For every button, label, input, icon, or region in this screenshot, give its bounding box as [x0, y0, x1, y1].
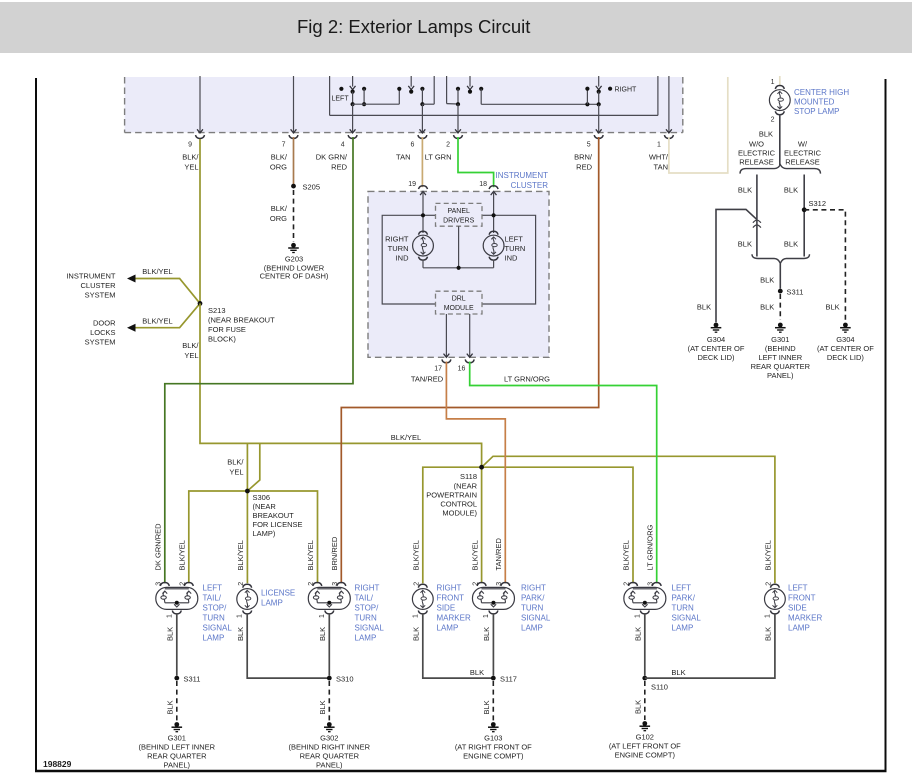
svg-text:LAMP: LAMP [355, 634, 377, 643]
switch wiper 4 (pin 5 feed) [596, 76, 602, 106]
wire BLK w/ electric release branch [803, 175, 805, 257]
wire DRL module to pin 16 exit [465, 314, 474, 363]
title bar [0, 2, 912, 53]
ground G304 left [711, 323, 722, 333]
svg-text:6: 6 [410, 142, 414, 149]
svg-text:BREAKOUT: BREAKOUT [253, 511, 295, 520]
svg-text:2: 2 [472, 582, 479, 586]
svg-text:LAMP: LAMP [437, 624, 459, 633]
ground G203 [288, 243, 299, 253]
multifunction switch SW1 (solid box, top cut off) [330, 76, 658, 115]
svg-text:2: 2 [624, 582, 631, 586]
crossover arcs on w/o branch [753, 220, 761, 227]
splice S110 [642, 676, 647, 681]
svg-text:LAMP: LAMP [203, 634, 225, 643]
wire S213 down and right along bus to S118 drop [200, 303, 482, 467]
svg-text:1: 1 [634, 614, 641, 618]
svg-text:SYSTEM: SYSTEM [85, 338, 116, 347]
svg-text:FOR LICENSE: FOR LICENSE [253, 520, 303, 529]
wire bus 481 to 598 [481, 103, 599, 105]
svg-text:ELECTRIC: ELECTRIC [784, 149, 822, 158]
svg-text:MARKER: MARKER [788, 614, 822, 623]
junction dot node 18 [492, 213, 496, 217]
svg-text:4: 4 [341, 142, 345, 149]
splice S213 [198, 301, 203, 306]
svg-text:BLK: BLK [826, 302, 840, 311]
contact dot + drop at 481 [479, 87, 483, 105]
net LT GRN: pin 2 to cluster pin 18 [458, 137, 494, 187]
svg-text:BLK: BLK [482, 700, 491, 714]
svg-text:BLK: BLK [166, 627, 175, 641]
wire pin 2 exit [454, 104, 463, 138]
ground G301 [172, 722, 183, 732]
svg-text:BLK/YEL: BLK/YEL [470, 540, 479, 570]
label W/O ELECTRIC RELEASE [738, 140, 776, 167]
lamp left turn indicator [483, 231, 504, 260]
ground G102 [640, 721, 651, 731]
splice S205 [291, 184, 296, 189]
svg-text:G304: G304 [707, 335, 725, 344]
svg-text:S118: S118 [460, 472, 477, 481]
svg-text:BRN/RED: BRN/RED [330, 536, 339, 570]
svg-text:LAMP: LAMP [788, 624, 810, 633]
svg-text:SYSTEM: SYSTEM [85, 291, 116, 300]
wire pin 1 exit [664, 76, 673, 138]
svg-text:(AT CENTER OF: (AT CENTER OF [817, 344, 874, 353]
svg-text:3: 3 [156, 582, 163, 586]
svg-text:RED: RED [331, 163, 347, 172]
lamp right turn indicator [413, 231, 434, 260]
label G301 (BEHIND LEFT INNER REAR QUARTER PANEL) [751, 335, 811, 380]
label RIGHT TAIL/STOP/TURN SIGNAL LAMP [355, 584, 385, 643]
junction dot pin 4 [351, 102, 355, 106]
svg-text:ORG: ORG [270, 214, 287, 223]
svg-text:BLK/: BLK/ [271, 153, 288, 162]
svg-text:CENTER HIGH: CENTER HIGH [794, 88, 849, 97]
svg-text:BLK: BLK [784, 240, 798, 249]
svg-text:ENGINE COMPT): ENGINE COMPT) [463, 752, 524, 761]
wire BLK w/o electric release branch [756, 175, 758, 257]
wire pin 19 down to right turn ind lamp [422, 191, 424, 233]
connector pin 19 (cup + arrow) [419, 186, 428, 195]
svg-text:G203: G203 [285, 255, 303, 264]
net TAN/RED: cluster pin 17 to right park lamp pin 3 [446, 362, 505, 584]
svg-text:SIDE: SIDE [788, 604, 807, 613]
svg-text:G301: G301 [168, 734, 186, 743]
svg-text:BLK: BLK [318, 700, 327, 714]
svg-text:BLK/: BLK/ [182, 153, 199, 162]
svg-text:PANEL): PANEL) [767, 371, 794, 380]
svg-text:G301: G301 [771, 335, 789, 344]
options brace (splits W/O and W/ electric release) [740, 165, 821, 174]
svg-text:FRONT: FRONT [437, 594, 465, 603]
label CENTER HIGH MOUNTED STOP LAMP [794, 88, 849, 116]
contact dot LEFT position [339, 87, 343, 91]
lamp LEFT PARK/TURN SIGNAL LAMP [624, 583, 666, 614]
label S213 (NEAR BREAKOUT FOR FUSE BLOCK) [208, 306, 275, 344]
svg-text:REAR QUARTER: REAR QUARTER [751, 362, 811, 371]
svg-text:BLK: BLK [759, 130, 773, 139]
net BRN/RED: pin 5 to right tail lamp pin 1 (3) [341, 137, 598, 583]
svg-text:SIGNAL: SIGNAL [355, 624, 385, 633]
svg-text:CONTROL: CONTROL [440, 500, 477, 509]
switch wiper 2 [408, 76, 414, 94]
label BLK/ORG (ground leg) [270, 204, 288, 223]
wire BLK right tail to S310 [328, 613, 330, 676]
lamp CHMSL: center high mounted stop lamp [769, 86, 790, 115]
svg-text:LT GRN/ORG: LT GRN/ORG [504, 375, 550, 384]
svg-text:DRIVERS: DRIVERS [443, 217, 474, 224]
svg-text:REAR QUARTER: REAR QUARTER [300, 752, 360, 761]
svg-text:BLK: BLK [738, 240, 752, 249]
wire BLK left front marker to S110 [645, 613, 775, 678]
svg-text:S205: S205 [303, 183, 321, 192]
wire pin 7 exit [289, 76, 298, 138]
svg-text:TAN/RED: TAN/RED [411, 375, 444, 384]
svg-text:LEFT: LEFT [788, 584, 808, 593]
lamp RIGHT TAIL/STOP/TURN SIGNAL LAMP [308, 583, 350, 614]
svg-text:2: 2 [771, 117, 775, 124]
instrument cluster (dashed box) [368, 191, 549, 357]
label INSTRUMENT CLUSTER SYSTEM [66, 272, 116, 300]
svg-text:CLUSTER: CLUSTER [511, 181, 549, 190]
svg-text:PANEL): PANEL) [316, 761, 343, 770]
wire S306 right branch to right tail lamp pin 2 [247, 491, 317, 583]
wire bus to contact at 399 [353, 87, 402, 104]
svg-text:S117: S117 [500, 675, 517, 684]
svg-text:ELECTRIC: ELECTRIC [738, 149, 776, 158]
svg-text:1: 1 [764, 614, 771, 618]
lamp RIGHT PARK/TURN SIGNAL LAMP [472, 583, 514, 614]
svg-text:LT GRN/ORG: LT GRN/ORG [645, 524, 654, 570]
svg-text:PARK/: PARK/ [521, 594, 545, 603]
svg-text:LEFT INNER: LEFT INNER [758, 353, 802, 362]
svg-text:ENGINE COMPT): ENGINE COMPT) [615, 751, 676, 760]
wire drop from bus to S306 [246, 443, 248, 491]
svg-text:TURN: TURN [388, 244, 409, 253]
label S118 (NEAR POWERTRAIN CONTROL MODULE) [426, 472, 477, 518]
wire S306 jog to bus (diagonal riser) [247, 443, 259, 491]
svg-text:LAMP): LAMP) [253, 529, 276, 538]
svg-text:1: 1 [483, 614, 490, 618]
svg-text:SIGNAL: SIGNAL [521, 614, 551, 623]
svg-text:ORG: ORG [270, 163, 287, 172]
wire pin 6 exit [418, 104, 427, 138]
svg-text:DECK LID): DECK LID) [827, 353, 865, 362]
svg-text:RIGHT: RIGHT [615, 87, 638, 94]
label LEFT TURN IND [505, 235, 526, 263]
label G102 (AT LEFT FRONT OF ENGINE COMPT) [609, 733, 681, 760]
wire pin 5 exit [594, 104, 603, 138]
svg-text:LEFT: LEFT [672, 584, 692, 593]
wire S306 left branch to left tail lamp pin 2 [189, 491, 248, 583]
svg-text:(BEHIND LEFT INNER: (BEHIND LEFT INNER [139, 743, 216, 752]
net TAN: pin 6 to cluster pin 19 [421, 137, 423, 187]
svg-text:W/O: W/O [749, 140, 764, 149]
svg-text:RED: RED [576, 163, 592, 172]
svg-text:POWERTRAIN: POWERTRAIN [426, 491, 477, 500]
net BLK/YEL: pin 9 to S213 [199, 139, 201, 303]
frame right border [885, 79, 887, 772]
svg-text:PANEL: PANEL [447, 208, 470, 215]
svg-text:BLK/YEL: BLK/YEL [412, 540, 421, 570]
net LT GRN/ORG: cluster pin 16 to left park lamp pin 3 [470, 362, 657, 584]
svg-text:2: 2 [766, 582, 773, 586]
svg-text:198829: 198829 [43, 759, 72, 769]
contact dot + riser at 587 [585, 87, 589, 107]
svg-text:BLK: BLK [633, 700, 642, 714]
svg-text:BLK/: BLK/ [182, 341, 199, 350]
ground G301 (upper) [775, 323, 786, 333]
svg-text:SIGNAL: SIGNAL [672, 614, 702, 623]
svg-text:7: 7 [282, 142, 286, 149]
svg-text:DECK LID): DECK LID) [697, 353, 735, 362]
wire branch to G304 deck lid ground (left) [716, 209, 757, 322]
svg-text:BLK: BLK [764, 627, 773, 641]
svg-text:BLK: BLK [784, 186, 798, 195]
label G203 (BEHIND LOWER CENTER OF DASH) [260, 255, 329, 281]
frame bottom border [35, 770, 887, 773]
svg-text:1: 1 [412, 614, 419, 618]
svg-text:TAIL/: TAIL/ [203, 594, 222, 603]
label BLK/YEL above S306 [227, 458, 244, 477]
svg-text:(NEAR BREAKOUT: (NEAR BREAKOUT [208, 316, 275, 325]
svg-text:LAMP: LAMP [261, 599, 283, 608]
junction dot on bus [457, 266, 461, 270]
frame left border [35, 78, 37, 772]
svg-text:2: 2 [308, 582, 315, 586]
svg-text:PANEL): PANEL) [164, 761, 191, 770]
svg-text:17: 17 [434, 366, 442, 373]
lamp LEFT TAIL/STOP/TURN SIGNAL LAMP [156, 583, 198, 614]
svg-text:LT GRN: LT GRN [425, 153, 452, 162]
merge brace (to S311) [752, 254, 810, 263]
svg-text:1: 1 [319, 614, 326, 618]
svg-text:REAR QUARTER: REAR QUARTER [147, 752, 207, 761]
label G304 (AT CENTER OF DECK LID) right [817, 335, 874, 362]
svg-text:YEL: YEL [184, 351, 198, 360]
wire right routing: node18 to DRL module right pin [482, 215, 536, 304]
svg-text:BLK/YEL: BLK/YEL [391, 433, 421, 442]
wire BLK license lamp to S310 [247, 613, 329, 678]
svg-text:INSTRUMENT: INSTRUMENT [496, 171, 549, 180]
switch wiper 3 [467, 76, 473, 94]
contact dot + drop at 364 [362, 87, 366, 107]
svg-text:BLK/YEL: BLK/YEL [236, 540, 245, 570]
label G301 (BEHIND LEFT INNER REAR QUARTER PANEL) [139, 734, 216, 770]
wire pin 4 exit [348, 104, 357, 138]
svg-text:WHT/: WHT/ [649, 153, 669, 162]
svg-text:IND: IND [396, 254, 410, 263]
svg-text:2: 2 [414, 582, 421, 586]
svg-text:S310: S310 [336, 675, 354, 684]
wire BLK right front marker to S117 [423, 613, 494, 678]
svg-text:LOCKS: LOCKS [90, 328, 115, 337]
svg-text:TURN: TURN [355, 614, 377, 623]
svg-text:S312: S312 [809, 199, 827, 208]
svg-text:S306: S306 [253, 493, 271, 502]
wire S118 jog to upper bus toward left front side marker [482, 456, 775, 583]
svg-text:TAIL/: TAIL/ [355, 594, 374, 603]
svg-text:(AT CENTER OF: (AT CENTER OF [688, 344, 745, 353]
svg-text:YEL: YEL [229, 468, 243, 477]
svg-text:S311: S311 [787, 288, 804, 297]
wire BLK left park to S110 [644, 613, 646, 676]
svg-text:FRONT: FRONT [788, 594, 816, 603]
svg-text:DOOR: DOOR [93, 319, 116, 328]
svg-text:G304: G304 [836, 335, 854, 344]
svg-text:RIGHT: RIGHT [437, 584, 462, 593]
wire BLK brace to S311 [779, 263, 781, 288]
svg-text:1: 1 [657, 142, 661, 149]
svg-text:RELEASE: RELEASE [785, 157, 820, 166]
svg-text:9: 9 [188, 142, 192, 149]
label G103 (AT RIGHT FRONT OF ENGINE COMPT) [455, 734, 532, 761]
contact dot RIGHT position [608, 87, 612, 91]
wire S118 left branch to right front side marker pin 2 [423, 467, 482, 583]
label LEFT PARK/TURN SIGNAL LAMP [672, 584, 702, 633]
splice S311 (rear) [778, 289, 783, 294]
svg-text:BLK: BLK [318, 627, 327, 641]
svg-text:BLK: BLK [470, 668, 484, 677]
svg-text:5: 5 [587, 142, 591, 149]
wire S306 down branch to license lamp pin 2 [246, 491, 248, 583]
svg-text:LICENSE: LICENSE [261, 589, 295, 598]
svg-text:BLK: BLK [236, 627, 245, 641]
svg-text:3: 3 [496, 582, 503, 586]
svg-text:MARKER: MARKER [437, 614, 471, 623]
svg-text:BLK: BLK [482, 627, 491, 641]
splice S310 [327, 676, 332, 681]
svg-text:DK GRN/: DK GRN/ [316, 153, 348, 162]
label W/ ELECTRIC RELEASE [784, 140, 822, 167]
wire S118 down branch to right park lamp pin 2 [481, 467, 483, 583]
wire BLK/ORG dashed S205 to G203 [293, 190, 295, 242]
lamp RIGHT FRONT SIDE MARKER LAMP [412, 584, 433, 614]
wire BLK dashed S310 to G302 [328, 681, 330, 721]
wire S213 branch to instrument cluster system (diagonal+horizontal) [127, 275, 200, 304]
svg-text:RIGHT: RIGHT [385, 235, 409, 244]
svg-text:18: 18 [479, 181, 487, 188]
svg-text:(NEAR: (NEAR [454, 482, 478, 491]
ground G302 [324, 722, 335, 732]
wire junction 422 to riser 434 [422, 76, 434, 104]
svg-text:STOP/: STOP/ [203, 604, 228, 613]
svg-text:2: 2 [446, 142, 450, 149]
label G304 (AT CENTER OF DECK LID) [688, 335, 745, 362]
svg-text:2: 2 [238, 582, 245, 586]
svg-text:TAN: TAN [396, 153, 410, 162]
lamp LICENSE LAMP [237, 584, 258, 614]
svg-text:(AT RIGHT FRONT OF: (AT RIGHT FRONT OF [455, 743, 532, 752]
connector block: headlamp/multifunction switch harness (lavender dashed box) [125, 77, 683, 133]
svg-text:TURN: TURN [521, 604, 543, 613]
connector pin 18 (cup + arrow) [489, 186, 498, 195]
svg-text:Fig 2: Exterior Lamps Circuit: Fig 2: Exterior Lamps Circuit [297, 16, 530, 37]
svg-text:CENTER OF DASH): CENTER OF DASH) [260, 272, 329, 281]
svg-text:BLK/YEL: BLK/YEL [622, 540, 631, 570]
net DK GRN/RED: pin 4 to left tail lamp pin 3 [165, 137, 353, 583]
svg-text:G103: G103 [484, 734, 502, 743]
splice S118 [479, 465, 484, 470]
label RIGHT TURN IND [385, 235, 409, 263]
wire L-feed to pin 2 junction [447, 76, 458, 104]
svg-text:S311: S311 [184, 675, 201, 684]
wire S118 right branch to left park lamp pin 2 [482, 467, 633, 583]
svg-text:TURN: TURN [672, 604, 694, 613]
svg-text:LEFT: LEFT [505, 235, 524, 244]
wire BLK dashed S311 to G301 [779, 294, 781, 320]
DRL MODULE (dashed box) [436, 291, 483, 314]
svg-text:RIGHT: RIGHT [521, 584, 546, 593]
svg-text:TAN: TAN [654, 163, 668, 172]
svg-text:BLK: BLK [165, 700, 174, 714]
svg-text:S110: S110 [651, 683, 668, 692]
label LEFT TAIL/STOP/TURN SIGNAL LAMP [203, 584, 233, 643]
svg-text:BLK/YEL: BLK/YEL [764, 540, 773, 570]
svg-text:BLK: BLK [634, 627, 643, 641]
svg-text:BLK: BLK [671, 668, 685, 677]
svg-text:TURN: TURN [203, 614, 225, 623]
svg-text:YEL: YEL [184, 163, 198, 172]
label RIGHT FRONT SIDE MARKER LAMP [437, 584, 471, 633]
net BLK/ORG: pin 7 to S205 [293, 137, 295, 186]
wire BLK dashed S312 to G304 (right) [804, 210, 845, 322]
svg-text:BLK/YEL: BLK/YEL [178, 540, 187, 570]
svg-text:BLK: BLK [697, 302, 711, 311]
svg-text:BRN/: BRN/ [574, 153, 593, 162]
svg-text:BLK/YEL: BLK/YEL [306, 540, 315, 570]
splice S306 [245, 489, 250, 494]
wire pin 9 exit (inside box to connector edge) [196, 76, 205, 138]
svg-text:BLOCK): BLOCK) [208, 335, 236, 344]
label INSTRUMENT CLUSTER [496, 171, 549, 190]
svg-text:MOUNTED: MOUNTED [794, 98, 835, 107]
svg-text:BLK: BLK [760, 275, 774, 284]
svg-text:LEFT: LEFT [332, 96, 350, 103]
splice S311 (lamp row) [174, 676, 179, 681]
label RIGHT PARK/TURN SIGNAL LAMP [521, 584, 551, 633]
svg-text:PARK/: PARK/ [672, 594, 696, 603]
wire WHT/TAN stub above center high mounted stop lamp [779, 76, 781, 86]
lamp LEFT FRONT SIDE MARKER LAMP [765, 584, 786, 614]
wire left routing: node19 to DRL module left pin [382, 215, 435, 304]
svg-text:(AT LEFT FRONT OF: (AT LEFT FRONT OF [609, 742, 681, 751]
svg-text:S213: S213 [208, 306, 226, 315]
wire node18 to panel drivers box [482, 214, 494, 216]
svg-text:1: 1 [237, 614, 244, 618]
wire wiper1 contact to pin 4 junction [352, 92, 354, 105]
svg-text:IND: IND [505, 254, 519, 263]
wire BLK dashed S117 to G103 [492, 681, 494, 721]
svg-text:(BEHIND: (BEHIND [765, 344, 796, 353]
wire BLK left tail to S311 [176, 613, 178, 676]
svg-text:LAMP: LAMP [521, 624, 543, 633]
svg-text:BLK/: BLK/ [271, 204, 288, 213]
splice S312 [802, 207, 807, 212]
contact dot + drop at 458 (pin 2 junction) [456, 87, 460, 107]
svg-text:BLK/YEL: BLK/YEL [142, 316, 172, 325]
wire riser bus to panel drivers bottom [458, 226, 460, 268]
svg-text:1: 1 [166, 614, 173, 618]
svg-text:16: 16 [458, 366, 466, 373]
ground G103 [488, 722, 499, 732]
svg-text:BLK: BLK [412, 627, 421, 641]
svg-text:3: 3 [647, 582, 654, 586]
net WHT/TAN: pin 1 up to cut edge [669, 77, 728, 173]
svg-text:BLK/: BLK/ [227, 458, 244, 467]
svg-text:CLUSTER: CLUSTER [80, 281, 116, 290]
